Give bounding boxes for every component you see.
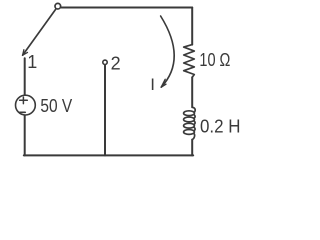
svg-text:0.2 H: 0.2 H [200,117,241,137]
left wire lower [24,116,26,156]
current arrow curve [161,16,175,87]
left wire upper [24,58,26,94]
svg-text:2: 2 [111,53,121,73]
voltage source minus sign [20,111,26,113]
svg-text:50 V: 50 V [40,96,72,116]
svg-text:1: 1 [27,52,37,72]
middle wire [104,65,106,155]
voltage source V1 circle [16,95,36,115]
switch pivot terminal [55,3,61,9]
inductor L loop 3 [184,123,195,128]
inductor L loop 2 [184,117,195,122]
wire resistor to inductor [191,77,193,107]
wire inductor to bottom [191,140,193,156]
voltage source plus sign [20,97,28,104]
svg-text:10 Ω: 10 Ω [199,50,230,70]
inductor L loop 1 [184,111,195,116]
switch blade arrowhead [23,50,28,56]
top wire [61,7,192,9]
switch blade [23,9,56,55]
current arrowhead [161,79,166,87]
terminal 2 circle [103,60,107,64]
inductor L loop 4 [184,130,195,135]
bottom wire [24,154,193,156]
inductor L coil connector [192,107,195,139]
wire right upper [191,8,193,45]
resistor R 10 ohm [184,45,195,78]
svg-text:I: I [150,75,155,94]
